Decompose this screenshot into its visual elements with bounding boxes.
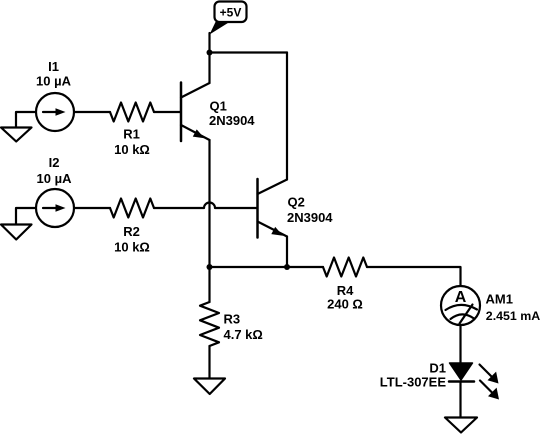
svg-text:240 Ω: 240 Ω — [327, 297, 363, 312]
ground (I2) — [1, 208, 36, 240]
node top junction — [207, 50, 213, 56]
current source I1 — [36, 93, 74, 131]
svg-text:10 µA: 10 µA — [36, 74, 72, 89]
D1 labels — [380, 361, 447, 390]
Q2 labels — [287, 195, 333, 226]
svg-text:LTL-307EE: LTL-307EE — [380, 375, 447, 390]
ammeter AM1 — [441, 286, 480, 325]
I1 value labels — [36, 59, 72, 89]
transistor Q2 — [258, 179, 288, 238]
svg-text:I2: I2 — [49, 155, 60, 170]
current source I2 — [36, 189, 74, 227]
ground (I1) — [1, 112, 36, 142]
diode D1 (LED) — [449, 363, 474, 382]
wire R3 bottom — [208, 346, 210, 378]
svg-text:R3: R3 — [224, 312, 241, 327]
wire R3 top — [208, 267, 210, 302]
wire Q2 collector vertical — [286, 53, 288, 180]
wire D1 to ground — [459, 382, 461, 417]
svg-text:Q1: Q1 — [210, 99, 227, 114]
ground (R3) — [194, 379, 225, 395]
wire R4 to right column — [367, 267, 461, 286]
svg-text:R2: R2 — [123, 224, 140, 239]
svg-text:I1: I1 — [48, 59, 59, 74]
I2 value labels — [37, 155, 73, 186]
svg-text:+5V: +5V — [220, 6, 242, 20]
R4 labels — [327, 283, 363, 312]
svg-text:Q2: Q2 — [288, 195, 305, 210]
+5V supply flag — [210, 2, 247, 35]
resistor R1 — [110, 103, 154, 122]
LED light arrow 1 — [480, 365, 499, 384]
wire top rail — [210, 51, 288, 53]
ground (D1) — [445, 418, 477, 433]
svg-text:10 µA: 10 µA — [37, 171, 73, 186]
svg-text:D1: D1 — [429, 361, 446, 376]
wire R2 to Q2 base with hop over Q1 emitter wire — [154, 203, 257, 208]
svg-text:10 kΩ: 10 kΩ — [114, 240, 150, 255]
wire Q1 emitter vertical — [208, 140, 210, 267]
R3 labels — [224, 312, 263, 343]
wire Q1 collector vertical — [208, 53, 210, 84]
svg-text:2.451 mA: 2.451 mA — [486, 309, 540, 323]
wire bottom rail left — [210, 266, 324, 268]
wire +5V to node — [208, 33, 210, 53]
svg-text:10 kΩ: 10 kΩ — [114, 142, 150, 157]
wire Q2 emitter vertical — [286, 237, 288, 268]
svg-text:R1: R1 — [123, 127, 140, 142]
transistor Q1 — [181, 83, 210, 142]
R1 labels — [114, 127, 150, 158]
node emitter junction — [207, 264, 213, 270]
svg-text:2N3904: 2N3904 — [209, 113, 255, 128]
resistor R4 — [323, 258, 367, 277]
svg-text:2N3904: 2N3904 — [287, 210, 333, 225]
svg-text:4.7 kΩ: 4.7 kΩ — [224, 327, 263, 342]
resistor R3 — [200, 302, 219, 346]
svg-text:A: A — [455, 289, 467, 306]
wire I2 to R2 — [74, 207, 110, 209]
Q1 labels — [209, 99, 255, 129]
wire R1 to Q1 base — [154, 111, 180, 113]
wire I1 to R1 — [74, 111, 110, 113]
wire ammeter to D1 — [459, 325, 461, 363]
resistor R2 — [110, 199, 154, 218]
R2 labels — [114, 224, 150, 255]
AM1 labels — [486, 292, 540, 324]
svg-text:AM1: AM1 — [486, 292, 513, 307]
node Q2 emitter junction — [284, 264, 290, 270]
LED light arrow 2 — [480, 381, 499, 400]
